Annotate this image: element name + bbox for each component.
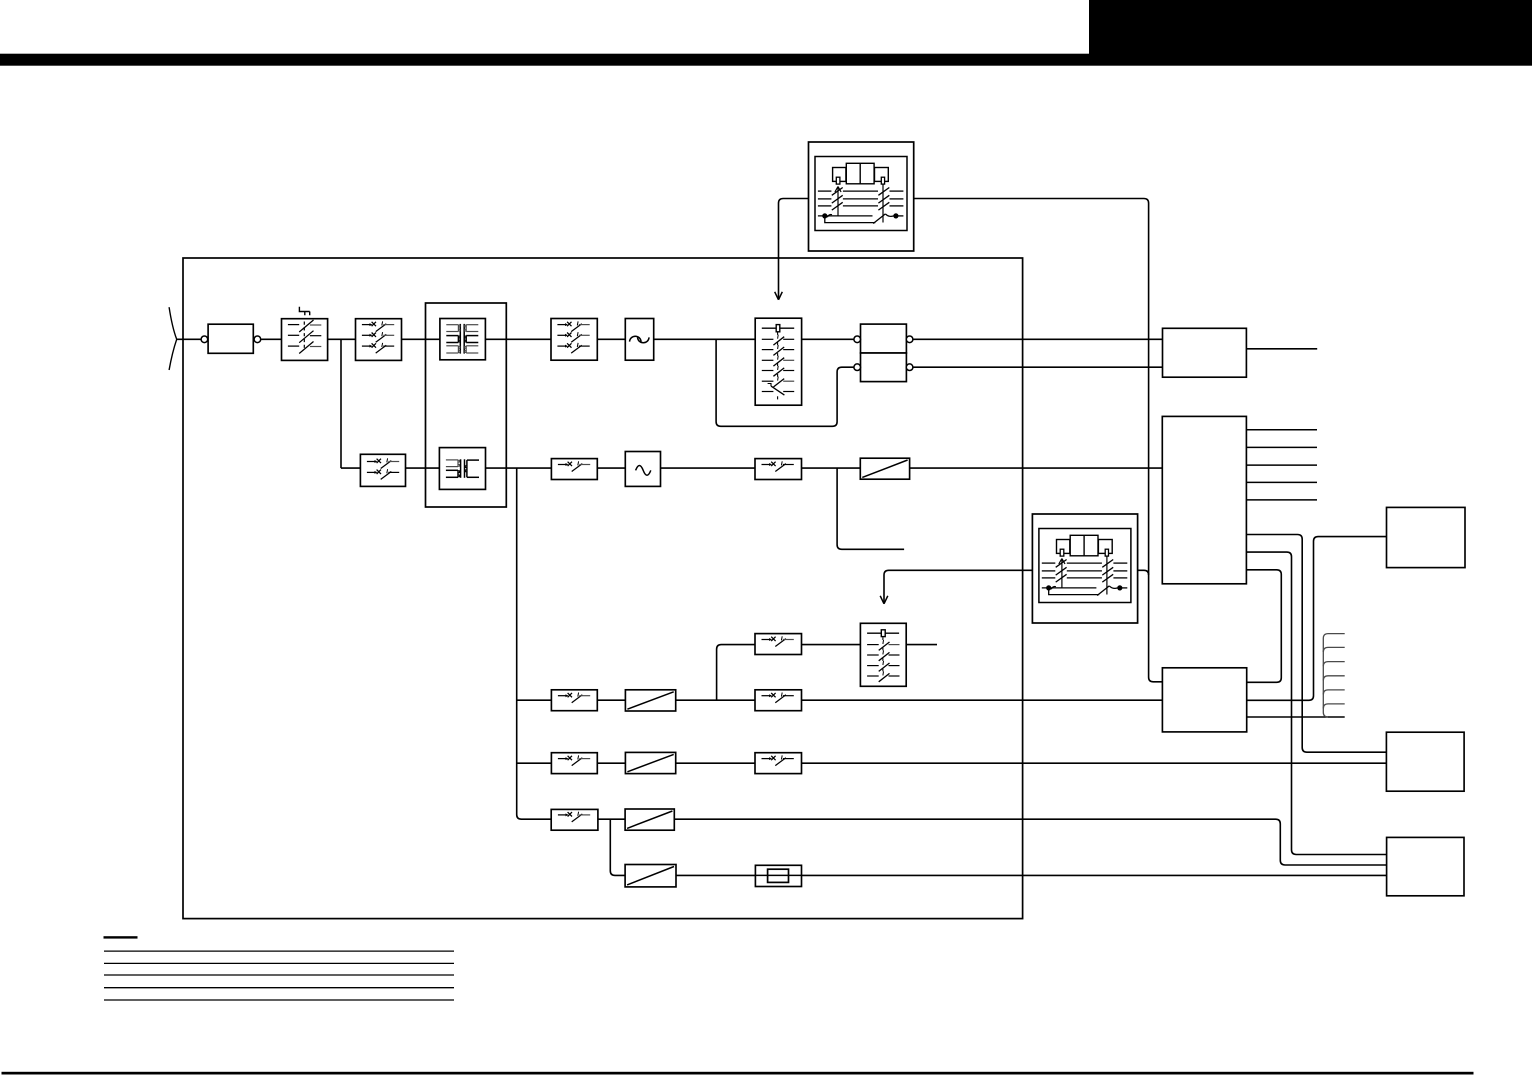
fuse box F1 xyxy=(755,865,801,886)
switch box SW11 xyxy=(755,753,802,774)
F1 fuse element xyxy=(768,869,789,882)
sine generator box xyxy=(625,452,660,487)
wire elbow to lower relay contact xyxy=(716,339,854,426)
transformer TX1 box xyxy=(440,319,486,360)
header black box top right xyxy=(1089,0,1532,54)
note rule 2 xyxy=(104,962,454,964)
SW3 contact 2 xyxy=(367,471,377,473)
SW10 contact xyxy=(558,758,568,760)
diagonal box D2 xyxy=(625,690,675,711)
wire row1 antenna to relay contacts xyxy=(177,338,854,340)
diagonal box D5 xyxy=(625,865,676,887)
TX2 left winding 2 xyxy=(446,469,458,471)
arrowhead inset1 xyxy=(775,292,783,300)
D3 diagonal xyxy=(627,754,673,771)
SW7 contact xyxy=(558,695,568,697)
wire B BOX_R2 to BOX_R6 xyxy=(1246,552,1386,854)
wire stub out of switch stack 2 xyxy=(906,644,937,646)
D1 diagonal xyxy=(862,460,907,477)
footer rule xyxy=(2,1072,1474,1075)
wire row2 switch to TX2 xyxy=(406,467,440,469)
frequency converter box xyxy=(625,319,653,361)
wire BOX_R1 output stub xyxy=(1246,348,1317,350)
ST1 contact 3 xyxy=(762,359,774,361)
note rule 3 xyxy=(104,974,454,976)
transformer shield container xyxy=(426,303,507,507)
wire bottom fuse row to BOX_R6 xyxy=(610,819,1386,875)
SW9 contact xyxy=(762,639,772,641)
switch box SW9 xyxy=(755,634,802,655)
TX1 winding pair 3 xyxy=(446,345,458,347)
box R4 xyxy=(1387,507,1466,567)
wire BOX_R3 to cable bundle xyxy=(1247,716,1345,718)
box B1 input filter xyxy=(208,324,253,353)
sine symbol xyxy=(636,466,651,476)
ST2 contact 2 xyxy=(867,654,879,656)
SW3 contact 1 xyxy=(367,461,377,463)
SW4 contact 2 xyxy=(557,334,567,336)
wire branch row3 up to aux switch row xyxy=(717,645,861,701)
D2 diagonal xyxy=(627,692,673,709)
relay contact box lower xyxy=(861,353,907,382)
diagonal box D1 xyxy=(860,458,909,479)
note rule 5 xyxy=(104,999,454,1001)
SW2 contact 3 xyxy=(362,345,372,347)
antenna input symbol xyxy=(169,307,177,370)
wire trunk left feeding rows 3-5 xyxy=(517,468,552,819)
wire BOX_R2 stub 1 xyxy=(1246,429,1317,431)
switch box SW3 (2-pole) xyxy=(360,454,405,486)
switch stack ST1 xyxy=(755,318,801,405)
switch box SW6 xyxy=(755,459,802,480)
ST2 contact 4 xyxy=(867,675,879,677)
TX2 right winding xyxy=(467,459,479,461)
wire inset1 right down to BOX_R3 xyxy=(914,199,1163,682)
F1 through line xyxy=(755,874,801,876)
box R3 xyxy=(1162,668,1246,732)
diagonal box D4 xyxy=(625,809,674,830)
box R2 xyxy=(1162,416,1246,583)
wire row4 to BOX_R5 xyxy=(517,762,1387,764)
wire row1 relay to BOX_R1 xyxy=(913,338,1163,340)
SW8 contact xyxy=(762,695,772,697)
wire into 2-pole switch xyxy=(341,467,360,469)
ST1 contact 2 xyxy=(762,349,774,351)
relay contact box upper xyxy=(861,324,907,353)
wire row2 TX2 to BOX_R2 xyxy=(486,467,1163,469)
SW1 contact 1 xyxy=(288,324,299,326)
wire inset2 left with arrow xyxy=(884,570,1033,603)
transformer TX2 box xyxy=(439,448,485,490)
cable bundle connector xyxy=(1323,634,1344,717)
ST1 contact 4 xyxy=(762,370,774,372)
SW1 step/timing symbol xyxy=(299,307,309,315)
diagonal box D3 xyxy=(625,752,675,773)
ST1 contact 5 xyxy=(762,380,774,382)
switch box SW5 xyxy=(551,459,597,480)
switch stack ST2 xyxy=(860,623,906,686)
wire stub below row2 xyxy=(837,468,904,549)
SW4 contact 1 xyxy=(557,324,567,326)
D4 diagonal xyxy=(627,811,672,828)
D5 diagonal xyxy=(627,867,674,885)
switch box SW1 xyxy=(282,319,328,361)
wire lower contact to BOX_R1 xyxy=(913,366,1163,368)
wire inset1 left with arrow xyxy=(779,199,809,300)
SW1 contact 2 xyxy=(288,334,299,336)
wire inset2 right joining vertical xyxy=(1137,570,1149,575)
TX2 left winding 1 xyxy=(446,459,458,461)
relay detail inset 2 xyxy=(1032,514,1137,623)
SW11 contact xyxy=(762,758,772,760)
note rule 4 xyxy=(104,987,454,989)
wire C BOX_R2 to BOX_R3 xyxy=(1246,570,1281,683)
SW12 contact xyxy=(558,814,568,816)
contact circle lower-right xyxy=(906,364,913,371)
switch box SW7 xyxy=(551,690,597,711)
TX1 core xyxy=(459,324,461,354)
wire A BOX_R2 to BOX_R5 xyxy=(1246,535,1386,753)
wire row3 to BOX_R3 xyxy=(517,699,1163,701)
note rule 1 xyxy=(104,950,454,952)
wire BOX_R2 stub 5 xyxy=(1246,499,1317,501)
SW2 contact 1 xyxy=(362,324,372,326)
switch box SW4 xyxy=(551,319,597,361)
switch box SW2 xyxy=(356,319,402,361)
relay detail inset 1 xyxy=(809,142,914,251)
freq converter symbol xyxy=(630,336,641,341)
TX1 winding pair 2 xyxy=(446,335,458,337)
ST2 contact 1 xyxy=(867,644,879,646)
arrowhead inset2 xyxy=(880,596,888,604)
SW6 contact xyxy=(762,464,772,466)
contact circle lower-left xyxy=(854,364,861,371)
wire row5 to BOX_R6 xyxy=(551,819,1386,865)
wire branch row1 to row2 xyxy=(340,339,342,468)
TX1 winding pair 1 xyxy=(446,324,458,326)
switch box SW8 xyxy=(755,690,802,711)
note heading underline xyxy=(104,936,138,938)
wire BOX_R2 stub 3 xyxy=(1246,464,1317,466)
ST1 fuse row xyxy=(762,327,794,329)
SW1 mechanical link dashed xyxy=(303,322,305,349)
header black bar xyxy=(0,54,1532,66)
ST1 contact 1 xyxy=(762,338,774,340)
contact circle upper-right xyxy=(906,336,913,343)
switch box SW10 xyxy=(551,753,597,774)
outer diagram frame xyxy=(183,258,1023,919)
connector circle right xyxy=(254,336,261,343)
wire BOX_R2 stub 4 xyxy=(1246,481,1317,483)
ST2 contact 3 xyxy=(867,665,879,667)
wire BOX_R4 to BOX_R3 xyxy=(1247,537,1387,701)
contact circle upper-left xyxy=(854,336,861,343)
box R6 xyxy=(1387,837,1464,895)
TX2 core xyxy=(460,459,462,478)
ST2 fuse row xyxy=(867,632,899,634)
box R5 xyxy=(1386,732,1464,791)
box R1 xyxy=(1163,328,1247,377)
connector circle left xyxy=(201,336,208,343)
switch box SW12 xyxy=(551,809,598,830)
SW1 contact 3 xyxy=(288,345,299,347)
wire BOX_R2 stub 2 xyxy=(1246,446,1317,448)
SW4 contact 3 xyxy=(557,345,567,347)
SW5 contact xyxy=(558,464,568,466)
ST1 contact 6 (reversed) xyxy=(762,391,774,393)
SW2 contact 2 xyxy=(362,334,372,336)
